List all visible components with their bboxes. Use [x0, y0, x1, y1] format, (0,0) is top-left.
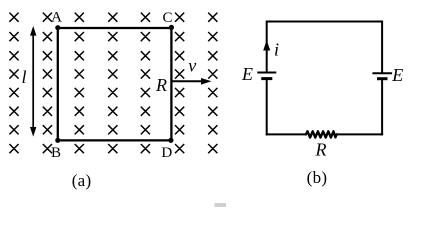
label v: [188, 55, 196, 75]
svg-text:R: R: [155, 75, 167, 95]
battery E1 (left): long plate: [257, 72, 276, 74]
svg-text:v: v: [188, 55, 196, 75]
svg-text:A: A: [51, 10, 62, 26]
wire: circuit bottom left: [266, 133, 307, 135]
caption (b): [307, 168, 328, 187]
node B: [51, 138, 61, 161]
svg-text:R: R: [315, 140, 327, 160]
label l: [21, 67, 26, 87]
battery E2 (right): long plate: [372, 72, 392, 74]
node A: [51, 10, 62, 31]
battery E1 (left): short plate: [261, 77, 272, 80]
wire: loop left side A-B: [57, 28, 59, 140]
caption (a): [72, 171, 92, 190]
label R (loop resistance): [155, 75, 167, 95]
battery E2 (right): short plate: [377, 77, 388, 80]
svg-text:(a): (a): [72, 171, 92, 190]
stray faint mark (cropped text artifact): [215, 203, 227, 207]
length arrow l (double-headed): [30, 26, 36, 137]
node C: [162, 10, 174, 30]
wire: circuit right upper: [381, 21, 383, 74]
label i: [274, 40, 279, 60]
svg-text:i: i: [274, 40, 279, 60]
label E (right battery): [391, 65, 403, 85]
velocity arrow v: [172, 78, 212, 85]
label R (circuit resistor): [315, 140, 327, 160]
wire: circuit top: [267, 21, 382, 23]
svg-text:E: E: [241, 64, 253, 84]
magnetic field B (x symbols, into page): [9, 13, 217, 154]
svg-text:B: B: [51, 145, 61, 161]
wire: loop bottom side B-D: [58, 139, 172, 141]
wire: circuit bottom right: [336, 133, 383, 135]
node D: [161, 138, 173, 161]
resistor R (zigzag): [306, 131, 337, 137]
wire: loop top side A-C: [58, 27, 172, 29]
wire: circuit right lower: [381, 79, 383, 136]
wire: circuit left upper: [266, 21, 268, 73]
label E (left battery): [241, 64, 253, 84]
svg-text:C: C: [162, 10, 172, 26]
svg-text:l: l: [21, 67, 26, 87]
current arrow i: [263, 40, 270, 51]
svg-text:E: E: [391, 65, 403, 85]
wire: circuit left lower: [266, 79, 268, 136]
svg-text:(b): (b): [307, 168, 328, 187]
wire: loop right side C-D: [170, 28, 172, 140]
svg-text:D: D: [161, 145, 172, 161]
